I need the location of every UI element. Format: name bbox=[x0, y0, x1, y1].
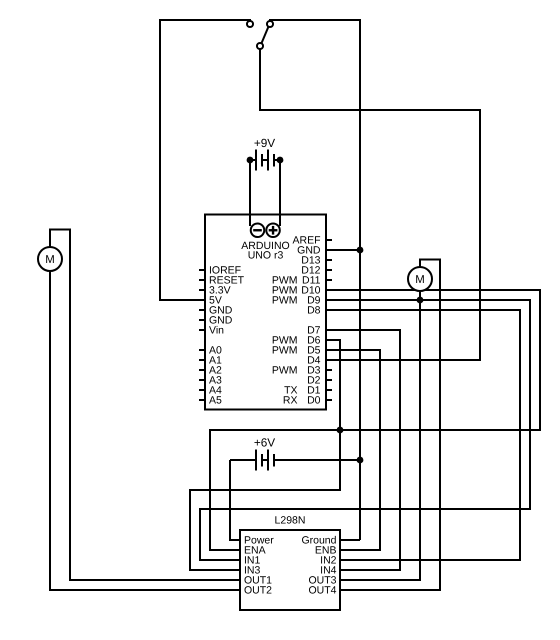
terminal plus bbox=[266, 224, 280, 238]
svg-text:+9V: +9V bbox=[254, 136, 275, 150]
pin stub RESET bbox=[199, 279, 205, 281]
battery B1 +9V bbox=[250, 150, 280, 171]
wire battery B1 negative lead bbox=[249, 160, 251, 226]
wire OUT4 to motor M2 top bbox=[340, 260, 440, 591]
pin stub A5 bbox=[199, 399, 205, 401]
svg-text:L298N: L298N bbox=[275, 515, 306, 527]
svg-text:PWM: PWM bbox=[272, 295, 298, 307]
wire GND to ground rail bbox=[326, 249, 360, 251]
svg-text:UNO r3: UNO r3 bbox=[248, 250, 284, 262]
plus sign bbox=[269, 229, 278, 231]
wire D6 to IN3 bbox=[190, 340, 340, 570]
switch S1 bbox=[247, 21, 273, 49]
wire OUT3 to motor M2 bbox=[340, 291, 420, 580]
svg-text:OUT2: OUT2 bbox=[244, 585, 272, 597]
L298N U2 body bbox=[240, 530, 340, 610]
wire D7 to IN4 bbox=[326, 330, 400, 570]
svg-text:PWM: PWM bbox=[272, 365, 298, 377]
pin stub D11 bbox=[326, 279, 332, 281]
svg-text:D0: D0 bbox=[307, 395, 321, 407]
svg-text:OUT4: OUT4 bbox=[308, 585, 336, 597]
battery B2 +6V bbox=[230, 450, 360, 471]
pin stub D13 bbox=[326, 259, 332, 261]
pin stub D2 bbox=[326, 379, 332, 381]
wire switch left feed bbox=[160, 20, 251, 300]
pin stub A0 bbox=[199, 349, 205, 351]
pin stub GND left 1 bbox=[199, 309, 205, 311]
motor M2 bbox=[408, 267, 432, 291]
pin stub AREF bbox=[326, 239, 332, 241]
svg-text:RX: RX bbox=[283, 395, 298, 407]
svg-text:+6V: +6V bbox=[254, 436, 275, 450]
pin stub 3.3V bbox=[199, 289, 205, 291]
junction dot B2 rail bbox=[357, 457, 364, 464]
pin stub A1 bbox=[199, 359, 205, 361]
terminal minus bbox=[251, 224, 265, 238]
arduino U1 body bbox=[205, 215, 326, 410]
wire battery B2 positive to Power bbox=[230, 460, 240, 540]
wire IN4 row bbox=[340, 569, 400, 571]
wire OUT1 to motor M1 top bbox=[50, 230, 240, 581]
svg-text:PWM: PWM bbox=[272, 345, 298, 357]
wire IN2 row bbox=[340, 559, 520, 561]
svg-text:M: M bbox=[45, 254, 55, 266]
wire battery into terminals bbox=[249, 214, 251, 226]
wire D10 to ENA bbox=[210, 290, 540, 550]
minus sign bbox=[253, 229, 262, 231]
svg-text:M: M bbox=[415, 274, 425, 286]
svg-text:Vin: Vin bbox=[209, 325, 224, 337]
pin stub D12 bbox=[326, 269, 332, 271]
wire D9 to IN1 bbox=[200, 300, 530, 560]
junction dot battery B1 neg bbox=[247, 157, 254, 164]
wire D5 to ENB bbox=[326, 350, 380, 550]
wire Ground pin to rail bbox=[340, 539, 360, 541]
wire D8 to IN2 bbox=[326, 310, 520, 560]
pin stub D1 bbox=[326, 389, 332, 391]
pin stub Vin bbox=[199, 329, 205, 331]
pin stub A2 bbox=[199, 369, 205, 371]
wire switch right to ground rail bbox=[269, 20, 360, 540]
pin stub IOREF bbox=[199, 269, 205, 271]
junction dot battery B1 pos bbox=[277, 157, 284, 164]
pin stub D3 bbox=[326, 369, 332, 371]
svg-text:A5: A5 bbox=[209, 395, 222, 407]
wire switch common to D4 bbox=[260, 49, 480, 360]
pin stub GND left 2 bbox=[199, 319, 205, 321]
junction dot D9 motor bbox=[417, 297, 424, 304]
wire battery B1 positive lead bbox=[279, 160, 281, 226]
pin stub A3 bbox=[199, 379, 205, 381]
junction dot GND rail bbox=[357, 247, 364, 254]
motor M1 bbox=[38, 247, 62, 271]
junction dot D6 D10 bbox=[337, 427, 344, 434]
wire OUT2 to motor M1 bbox=[50, 271, 240, 590]
pin stub A4 bbox=[199, 389, 205, 391]
svg-text:D8: D8 bbox=[307, 305, 321, 317]
pin stub D0 bbox=[326, 399, 332, 401]
